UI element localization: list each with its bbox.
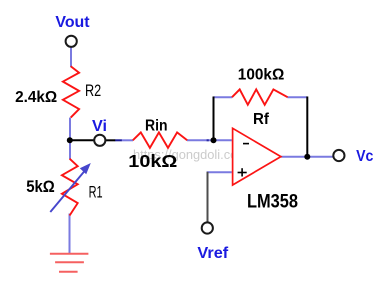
svg-text:100kΩ: 100kΩ — [238, 66, 285, 83]
svg-text:10kΩ: 10kΩ — [128, 151, 177, 171]
svg-text:Rin: Rin — [145, 118, 168, 135]
svg-text:Vout: Vout — [55, 14, 90, 31]
svg-text:R2: R2 — [85, 82, 101, 100]
svg-text:5kΩ: 5kΩ — [26, 178, 55, 196]
svg-text:2.4kΩ: 2.4kΩ — [15, 89, 57, 106]
svg-text:Vref: Vref — [197, 245, 228, 262]
svg-text:Vi: Vi — [92, 118, 107, 135]
svg-text:Rf: Rf — [253, 111, 270, 128]
svg-text:R1: R1 — [89, 184, 103, 202]
svg-text:LM358: LM358 — [247, 191, 298, 212]
svg-text:Vc: Vc — [356, 148, 373, 165]
